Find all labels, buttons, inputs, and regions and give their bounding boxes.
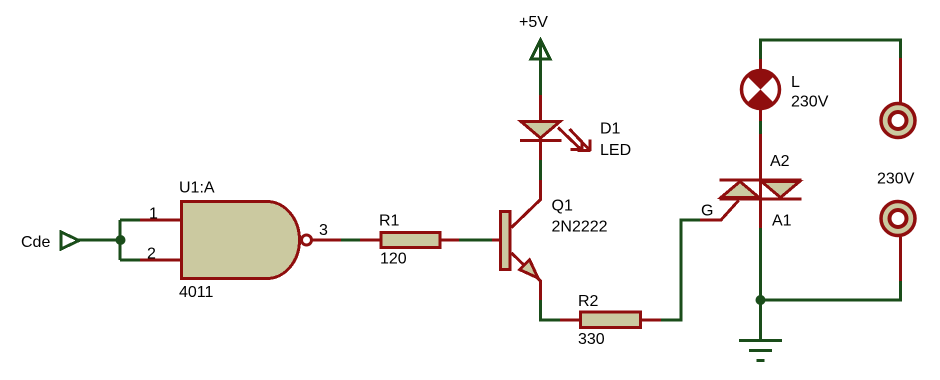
wire J2 to junction bbox=[761, 281, 901, 300]
connector J2 inner bbox=[890, 210, 907, 227]
svg-text:G: G bbox=[701, 203, 713, 220]
triac right triangle bbox=[762, 182, 800, 198]
svg-text:2N2222: 2N2222 bbox=[552, 219, 608, 236]
svg-text:+5V: +5V bbox=[519, 14, 548, 31]
LED light arrow 2 bbox=[570, 129, 591, 151]
svg-text:4011: 4011 bbox=[179, 284, 214, 301]
wire junction to ground bbox=[759, 300, 762, 339]
pin lamp bottom bbox=[759, 110, 762, 121]
pin connector J1 bbox=[899, 58, 902, 103]
junction input node bbox=[116, 235, 126, 245]
transistor Q1 body bar bbox=[501, 212, 511, 270]
resistor R1 bbox=[381, 233, 440, 248]
svg-text:L: L bbox=[791, 74, 800, 91]
ground symbol bbox=[739, 341, 782, 361]
junction ground node bbox=[756, 295, 766, 305]
wire Cde to junction bbox=[78, 239, 120, 242]
U1:A inversion bubble bbox=[302, 235, 312, 245]
pin triac gate bbox=[700, 201, 739, 221]
NAND gate U1:A body bbox=[182, 202, 300, 279]
wire top rail bbox=[761, 40, 901, 59]
pin connector J2 bbox=[899, 237, 902, 281]
svg-text:330: 330 bbox=[578, 331, 605, 348]
LED D1 cathode bar bbox=[520, 139, 562, 142]
svg-text:U1:A: U1:A bbox=[179, 180, 215, 197]
wire A1 to junction bbox=[759, 228, 762, 300]
pin Q1 collector bbox=[512, 180, 541, 228]
pin 2 of U1:A bbox=[140, 259, 181, 262]
svg-text:1: 1 bbox=[149, 206, 158, 223]
pin R1 right bbox=[441, 239, 459, 242]
pin triac A1 bbox=[759, 199, 762, 228]
resistor R2 bbox=[581, 312, 641, 328]
triac bottom bar bbox=[720, 198, 802, 201]
wire junction vertical bbox=[119, 220, 122, 260]
svg-text:R1: R1 bbox=[379, 213, 400, 230]
pin triac A2 bbox=[759, 134, 762, 180]
LED D1 triangle bbox=[521, 122, 560, 139]
svg-text:230V: 230V bbox=[791, 94, 829, 111]
wire D1 to Q1 collector bbox=[539, 160, 542, 180]
Q1 emitter arrowhead bbox=[520, 260, 538, 278]
wire lamp to A2 bbox=[759, 121, 762, 134]
input terminal Cde bbox=[61, 232, 79, 249]
connector J2 outer bbox=[881, 202, 915, 236]
lamp L bottom wedge bbox=[747, 90, 774, 109]
power terminal +5V bbox=[531, 40, 550, 59]
wire Q1 emitter to R2 bbox=[541, 300, 561, 320]
pin R1 left bbox=[360, 239, 380, 242]
pin 3 of U1:A bbox=[312, 239, 341, 242]
triac left triangle bbox=[721, 182, 759, 198]
pin D1 cathode bbox=[539, 141, 542, 160]
svg-text:3: 3 bbox=[319, 222, 328, 239]
svg-text:LED: LED bbox=[600, 142, 631, 159]
LED light arrow 1 bbox=[558, 128, 583, 151]
svg-text:Cde: Cde bbox=[21, 234, 50, 251]
pin Q1 emitter bbox=[512, 253, 541, 300]
svg-text:Q1: Q1 bbox=[552, 198, 573, 215]
connector J1 inner bbox=[890, 112, 907, 129]
pin R2 right bbox=[641, 319, 661, 322]
svg-text:120: 120 bbox=[380, 251, 407, 268]
pin R2 left bbox=[560, 319, 580, 322]
svg-text:A1: A1 bbox=[772, 213, 792, 230]
wire to pin 2 bbox=[120, 259, 140, 262]
svg-text:D1: D1 bbox=[600, 121, 621, 138]
wire to pin 1 bbox=[120, 219, 140, 222]
svg-text:230V: 230V bbox=[877, 171, 915, 188]
pin Q1 base bbox=[492, 239, 500, 242]
pin D1 anode bbox=[539, 95, 542, 120]
svg-text:R2: R2 bbox=[578, 293, 599, 310]
power terminal +5V stem bbox=[539, 42, 542, 95]
svg-text:A2: A2 bbox=[770, 153, 790, 170]
connector J1 outer bbox=[881, 104, 915, 138]
wire R2 to triac gate bbox=[661, 220, 700, 320]
pin lamp top bbox=[759, 59, 762, 71]
lamp L top wedge bbox=[747, 71, 774, 90]
triac top bar bbox=[720, 179, 802, 182]
svg-text:2: 2 bbox=[147, 246, 156, 263]
wire gate output to R1 bbox=[341, 239, 360, 242]
wire R1 to Q1 base bbox=[459, 239, 492, 242]
triac center link bbox=[759, 180, 762, 199]
lamp L body bbox=[742, 71, 780, 109]
pin 1 of U1:A bbox=[140, 219, 181, 222]
